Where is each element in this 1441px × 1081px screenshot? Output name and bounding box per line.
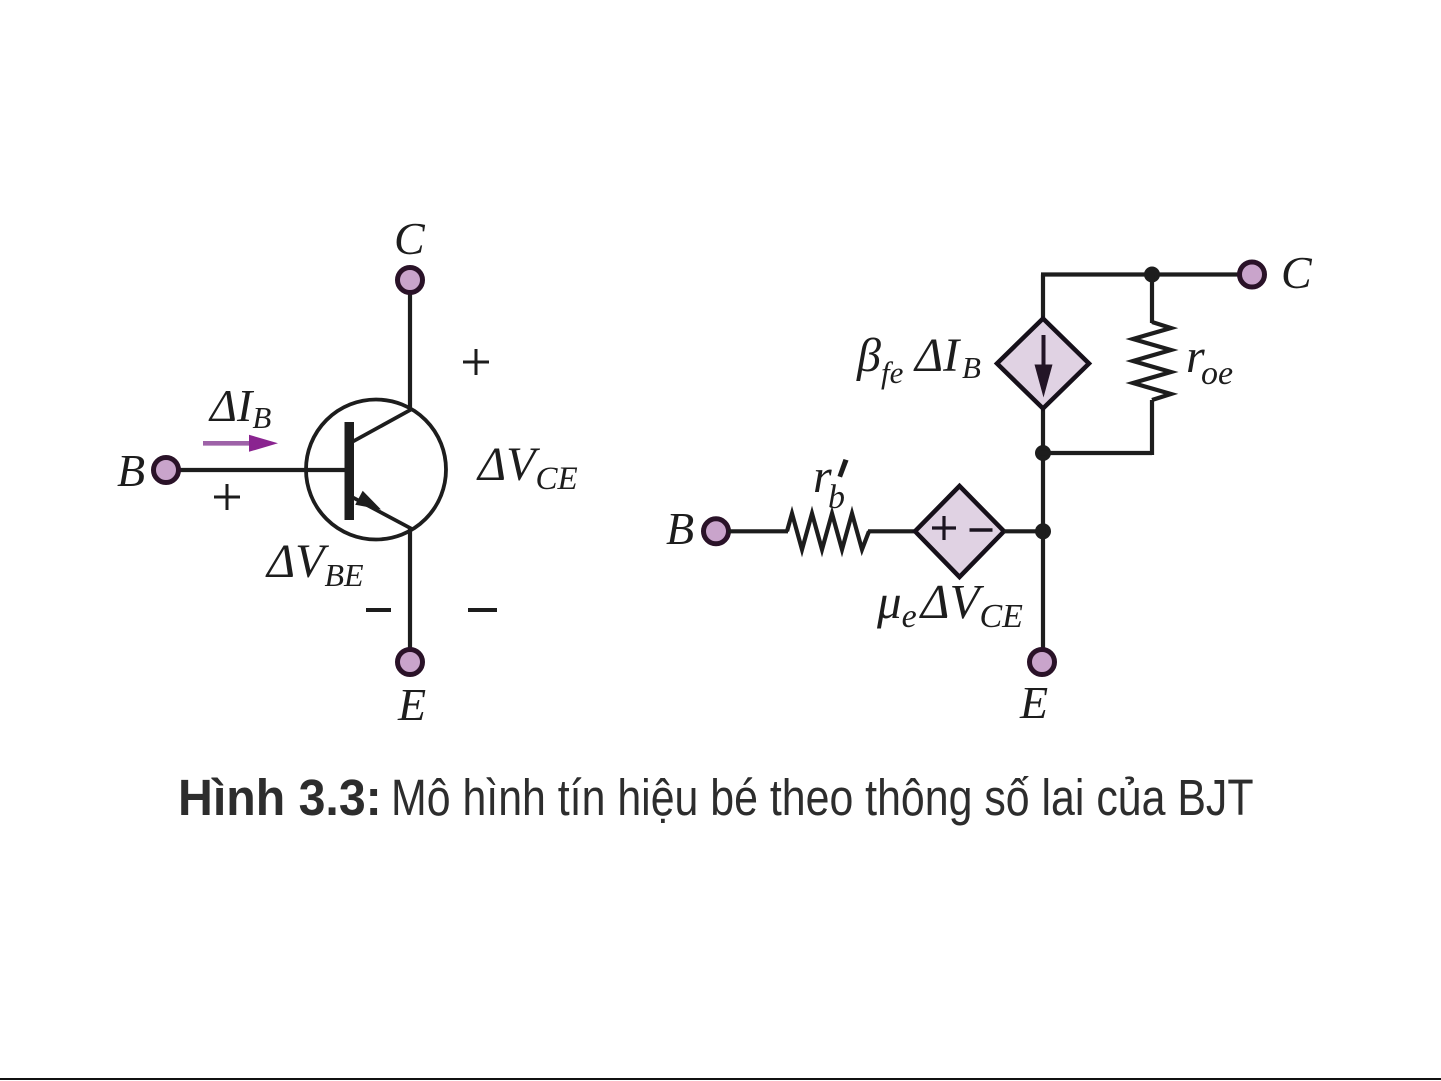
resistor r_oe bottom stub [1150, 400, 1154, 455]
minus sign inside diamond [970, 528, 993, 532]
svg-text:b: b [828, 479, 845, 516]
wire emitter vertical [408, 528, 412, 649]
main vertical wire (collector branch) [1041, 275, 1045, 651]
svg-text:ΔVCE: ΔVCE [476, 438, 578, 497]
svg-text:C: C [1281, 247, 1313, 298]
wire r_oe bottom to junction [1041, 451, 1152, 455]
svg-text:B: B [962, 350, 981, 385]
wire resistor to source diamond [868, 529, 917, 533]
dependent current source diamond beta_fe dI_B [997, 319, 1089, 409]
transistor Q (circle) [306, 400, 446, 540]
dependent voltage source diamond mu_e dV_CE [915, 486, 1004, 577]
svg-text:fe: fe [881, 355, 904, 390]
minus sign (left of E wire) [366, 608, 391, 612]
caption bold part [178, 768, 382, 827]
wire B to resistor [728, 529, 788, 533]
junction node at base connection [1035, 523, 1051, 539]
resistor r_oe top stub [1150, 275, 1154, 324]
terminal B (left) [154, 458, 179, 483]
minus sign (right of E wire) [468, 608, 497, 612]
base bar [345, 422, 355, 520]
current source arrowhead [1035, 365, 1053, 398]
top rail wire [1041, 272, 1240, 276]
resistor r_oe zigzag [1133, 322, 1171, 400]
svg-text:β: β [856, 329, 881, 382]
terminal C (right figure) [1240, 262, 1265, 287]
plus sign (base) [214, 484, 240, 510]
wire collector vertical [408, 294, 412, 410]
svg-text:E: E [397, 679, 426, 730]
caption regular part [391, 768, 1254, 827]
svg-text:ΔIB: ΔIB [208, 380, 271, 435]
svg-text:C: C [394, 213, 426, 264]
wire emitter diagonal [352, 497, 412, 529]
current arrow delta I_B (purple) [203, 441, 252, 446]
svg-text:μe ΔVCE: μe ΔVCE [876, 574, 1023, 635]
plus sign inside diamond [932, 516, 956, 540]
label r_b' prime [838, 459, 849, 478]
svg-text:oe: oe [1201, 355, 1233, 392]
emitter arrowhead [355, 491, 381, 510]
wire base lead [178, 468, 350, 472]
svg-text:ΔVBE: ΔVBE [265, 535, 364, 593]
bottom rule [0, 1078, 1441, 1081]
wire diamond to main vertical [1004, 529, 1045, 533]
resistor r_b' zigzag [787, 514, 869, 550]
current source arrow shaft [1042, 335, 1046, 370]
junction node on top rail [1144, 267, 1160, 283]
svg-text:E: E [1019, 677, 1048, 728]
svg-text:ΔI: ΔI [913, 329, 961, 382]
plus sign (collector) [463, 349, 489, 375]
svg-text:B: B [117, 445, 145, 496]
terminal E (right figure) [1030, 650, 1055, 675]
svg-text:B: B [666, 503, 694, 554]
junction node at collector connection [1035, 445, 1051, 461]
wire collector diagonal [352, 409, 412, 442]
terminal E (bottom) [398, 650, 423, 675]
terminal C (top) [398, 268, 423, 293]
terminal B (right figure) [704, 519, 729, 544]
